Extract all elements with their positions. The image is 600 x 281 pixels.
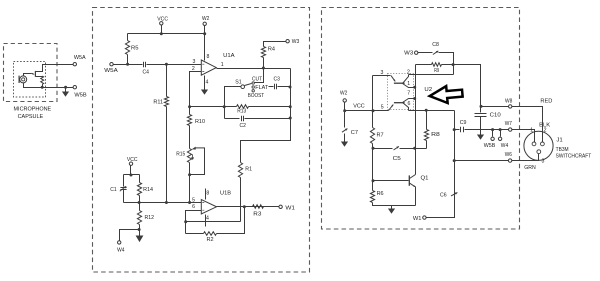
svg-text:C3: C3 — [274, 77, 280, 83]
wire C7 bottom — [344, 134, 346, 139]
wire R8 wires — [426, 111, 428, 130]
wire R14 top — [139, 175, 141, 183]
U2 bottom transistor bar — [394, 102, 405, 104]
terminal W5B mic — [73, 86, 76, 89]
wire R11 top — [166, 65, 168, 97]
wire C5 row right — [400, 148, 427, 150]
resistor R8 — [424, 130, 428, 141]
svg-text:TB3M: TB3M — [556, 147, 569, 153]
junction S1 R13 row — [223, 105, 226, 108]
wire R1 bottom row — [186, 221, 241, 223]
wire Q1 base row — [373, 180, 409, 182]
wire W2 stem right — [344, 103, 346, 111]
wire bottom row right — [373, 203, 416, 206]
trimmer R15 wiper arrow — [195, 147, 205, 149]
ground C7 — [344, 139, 346, 142]
wire VCC rail right — [345, 110, 389, 112]
svg-text:W8: W8 — [505, 98, 512, 104]
junction VCC rail — [160, 32, 163, 35]
capacitor C4 — [144, 62, 146, 68]
wire R6 top — [372, 149, 374, 191]
terminal W5A mic — [73, 62, 76, 65]
wire R1 bottom — [240, 178, 242, 222]
wire C5 row left — [373, 148, 393, 150]
connector J1 pin2 socket — [541, 142, 545, 146]
wire C1 top — [123, 175, 125, 187]
ground C10 — [480, 130, 482, 135]
wire W8 to J1 pin2 — [512, 107, 543, 143]
svg-text:5: 5 — [381, 104, 384, 110]
svg-text:3: 3 — [542, 158, 545, 164]
svg-text:R14: R14 — [143, 187, 153, 193]
wire C10 top — [480, 107, 482, 113]
optocoupler U2 dotted outline — [388, 74, 414, 110]
wire W4 branch — [120, 230, 140, 241]
junction W5B drop — [491, 128, 494, 131]
svg-text:5: 5 — [192, 198, 195, 204]
wire W6 to J1 pin3 — [512, 154, 539, 161]
junction R13 R10 — [188, 105, 191, 108]
wire mic bottom — [24, 83, 74, 88]
wire mic source to bottom — [42, 85, 44, 88]
wire W4 drop — [500, 130, 502, 137]
svg-text:R5: R5 — [131, 46, 139, 52]
wire U1B pin4 stub — [205, 215, 207, 227]
wire R12 wires — [139, 203, 141, 211]
resistor R4 — [261, 47, 265, 58]
wire mic gate — [24, 74, 32, 76]
svg-text:R13: R13 — [237, 109, 246, 115]
wire C3 to rail — [278, 86, 291, 88]
wire R7 wires — [372, 111, 374, 128]
junction R7 rail — [372, 109, 375, 112]
svg-text:R4: R4 — [268, 47, 275, 53]
wire R2 right — [217, 207, 245, 234]
wire W8 row — [481, 106, 509, 108]
U2 bottom transistor emitter — [389, 105, 394, 111]
op-amp U1B — [201, 200, 216, 214]
svg-text:1: 1 — [221, 62, 224, 68]
resistor R6 — [370, 191, 374, 203]
resistor R9 — [432, 63, 442, 67]
svg-text:W5A: W5A — [104, 68, 118, 74]
wire W2 stem to pin8 — [204, 26, 206, 61]
terminal W4 main — [118, 241, 121, 244]
junction output R2 — [243, 205, 246, 208]
svg-text:R11: R11 — [153, 99, 163, 105]
switch S1 lever — [245, 84, 252, 86]
svg-text:FLAT: FLAT — [255, 85, 269, 91]
wire R2 left — [186, 233, 204, 235]
svg-text:1: 1 — [407, 81, 410, 87]
terminal W1 main — [279, 205, 282, 208]
svg-text:W5B: W5B — [74, 93, 87, 99]
junction R5 W5A — [126, 63, 129, 66]
transistor Q1 bar — [408, 175, 410, 185]
svg-text:R1: R1 — [245, 167, 252, 173]
wire R10 to R15 — [189, 126, 191, 149]
wire U2 pin3 — [373, 75, 391, 77]
U2 top transistor emitter — [391, 76, 395, 82]
wire R14 bottom — [139, 196, 141, 203]
main amplifier dashed box — [93, 8, 310, 273]
wire R9 left — [416, 64, 432, 66]
wire S1 common — [225, 87, 241, 119]
wire C2 right — [245, 118, 291, 120]
junction R14 R12 — [138, 201, 141, 204]
svg-text:6: 6 — [408, 101, 411, 107]
wire R5 top — [127, 34, 129, 41]
capacitor C10 — [475, 114, 487, 117]
svg-text:S1: S1 — [235, 79, 241, 85]
svg-text:VCC: VCC — [157, 16, 168, 22]
svg-text:SWITCHCRAFT: SWITCHCRAFT — [556, 154, 592, 160]
wire R15 bottom — [189, 163, 191, 203]
wire feedback rail — [241, 69, 291, 163]
capacitor C9 — [461, 127, 464, 133]
mic jfet channel bar — [34, 71, 36, 77]
svg-text:R2: R2 — [207, 237, 214, 243]
Q1 emitter — [409, 183, 415, 187]
junction C3 rail — [289, 86, 292, 89]
wire U1A pin4 stub — [204, 76, 206, 90]
svg-text:GRN: GRN — [524, 165, 536, 171]
ground U1A — [204, 89, 206, 91]
capacitor C1 — [120, 188, 126, 190]
terminal VCC main — [160, 22, 163, 25]
wire R15 wiper loop — [190, 148, 205, 175]
wire U1A output — [217, 68, 291, 70]
svg-text:W3: W3 — [292, 39, 300, 45]
svg-text:4: 4 — [206, 216, 209, 222]
svg-text:W2: W2 — [340, 91, 347, 97]
wire U2 pin6 row — [409, 110, 455, 112]
wire W3 to C8 — [418, 52, 433, 54]
svg-text:Q1: Q1 — [421, 176, 429, 182]
junction VCC2 — [130, 174, 133, 177]
U2 top transistor collector — [403, 75, 409, 84]
wire W3 to R4 — [264, 42, 286, 47]
wire R7 bottom — [372, 144, 374, 149]
switch S1 contact CUT — [252, 82, 254, 84]
svg-text:W4: W4 — [501, 143, 508, 149]
switch S1 contact BOOST — [252, 90, 254, 92]
wire VCC stem — [161, 25, 163, 34]
mic element plate — [18, 76, 20, 83]
op-amp U1A — [201, 60, 216, 75]
junction C10 top — [480, 105, 483, 108]
ground Q1 — [391, 206, 393, 209]
svg-text:RED: RED — [540, 98, 552, 104]
junction C8 R9 — [452, 63, 455, 66]
wire U2 pin3 riser — [372, 76, 374, 111]
svg-text:W6: W6 — [505, 152, 512, 158]
svg-text:W2: W2 — [202, 16, 209, 22]
svg-text:C10: C10 — [490, 113, 501, 119]
junction mic source — [41, 86, 44, 89]
terminal VCC2 — [129, 162, 132, 165]
junction R15 pin5 row — [188, 201, 191, 204]
terminal W1 right — [423, 216, 426, 219]
wire U1B output — [217, 206, 281, 208]
wire W5A to C4 — [114, 64, 143, 66]
resistor R2 — [204, 232, 217, 236]
junction U2 pin1 — [413, 86, 416, 89]
wire VCC2 stem — [130, 166, 132, 175]
svg-text:VCC: VCC — [127, 157, 138, 163]
output stage dashed box — [322, 8, 520, 230]
svg-text:U2: U2 — [424, 87, 432, 93]
wire C1 R14 top — [124, 174, 140, 176]
svg-text:8: 8 — [207, 54, 210, 60]
U2 top transistor pin1 diag — [403, 84, 415, 88]
connector J1 pin1 socket — [532, 142, 536, 146]
svg-text:C8: C8 — [432, 42, 439, 48]
svg-text:C4: C4 — [143, 70, 149, 76]
junction rail W6 — [453, 159, 456, 162]
wire C1 bottom — [123, 190, 125, 203]
wire C9 to W7 — [465, 129, 509, 131]
wire W6 row — [455, 160, 509, 162]
terminal W3 main — [286, 40, 289, 43]
svg-text:6: 6 — [192, 204, 195, 210]
svg-text:W5A: W5A — [74, 55, 86, 61]
wire U2 common rail — [415, 65, 417, 175]
terminal W8 — [509, 105, 512, 108]
wire R13 left — [225, 106, 237, 108]
svg-text:C1: C1 — [110, 187, 116, 193]
Q1 collector — [410, 175, 416, 179]
svg-text:C7: C7 — [351, 130, 358, 136]
terminal W7 — [509, 128, 512, 131]
svg-text:7: 7 — [407, 91, 410, 97]
svg-text:C2: C2 — [240, 123, 246, 129]
wire mic jfet drain — [36, 65, 74, 72]
microphone capsule outer dashed box — [4, 44, 58, 102]
svg-text:MICROPHONE: MICROPHONE — [14, 106, 52, 112]
wire U1B pin8 stub — [205, 189, 207, 200]
svg-text:C6: C6 — [440, 193, 447, 199]
U2 bottom transistor pin7 diag — [403, 99, 415, 103]
svg-text:W3: W3 — [404, 51, 413, 57]
svg-text:W1: W1 — [285, 206, 295, 212]
junction R4 output — [262, 67, 265, 70]
junction mic ground — [64, 86, 67, 89]
terminal W6 — [508, 159, 511, 162]
junction R13 rail — [289, 105, 292, 108]
capacitor C2 — [242, 116, 244, 122]
wire pin5 row — [124, 202, 202, 204]
wire CUT riser — [255, 69, 264, 83]
wire W1 row — [427, 111, 455, 218]
svg-text:U1B: U1B — [220, 191, 231, 197]
capacitor C3 — [275, 84, 277, 90]
junction base row — [372, 179, 375, 182]
junction rail W7 — [453, 128, 456, 131]
junction C2 rail — [289, 117, 292, 120]
switch S1 pivot — [241, 85, 245, 89]
U2 bottom transistor pin6 diag — [403, 103, 409, 111]
svg-text:R6: R6 — [377, 191, 384, 197]
wire U1B pin6 loop — [186, 211, 202, 234]
svg-text:R15: R15 — [176, 152, 185, 158]
resistor R5 — [125, 41, 129, 55]
svg-text:1: 1 — [530, 128, 533, 134]
svg-text:U1A: U1A — [223, 53, 235, 59]
capacitor C8 — [433, 51, 438, 55]
wire R11 bottom — [166, 107, 168, 203]
svg-text:4: 4 — [206, 79, 209, 85]
wire C9 left — [455, 129, 460, 131]
junction R11 top — [165, 63, 168, 66]
wire C8 to corner — [439, 53, 454, 75]
resistor R10 — [187, 115, 191, 126]
wire U2 pin2 row — [409, 74, 454, 76]
svg-text:CAPSULE: CAPSULE — [18, 114, 44, 120]
ground mic — [65, 88, 67, 92]
junction W4 drop — [499, 128, 502, 131]
wire R4 bottom — [263, 58, 265, 69]
mic jfet gate arrow — [32, 73, 34, 75]
junction W2 rail right — [343, 109, 346, 112]
resistor R13 — [237, 105, 249, 109]
wire pin2 node to R10 — [189, 107, 191, 115]
svg-text:W7: W7 — [505, 121, 512, 127]
junction U2 pin7 — [413, 97, 416, 100]
svg-text:R7: R7 — [377, 133, 384, 139]
resistor R11 — [164, 97, 168, 107]
resistor R12 — [137, 211, 141, 225]
svg-text:W4: W4 — [117, 248, 124, 254]
junction R8 top — [425, 109, 428, 112]
microphone capsule inner dotted box — [14, 62, 46, 98]
ground R12 — [139, 230, 141, 236]
capacitor C6 — [451, 193, 457, 196]
mic source resistor — [41, 76, 44, 84]
terminal W3 right — [415, 51, 418, 54]
wire W5B drop — [492, 130, 494, 137]
junction R15 wiper — [188, 173, 191, 176]
svg-text:R12: R12 — [145, 215, 155, 221]
wire FLAT to C3 — [269, 86, 274, 88]
capacitor C7 — [342, 129, 347, 133]
svg-text:3: 3 — [193, 59, 196, 65]
svg-text:R9: R9 — [434, 68, 439, 74]
wire R13 to R10 node — [190, 106, 225, 108]
svg-text:2: 2 — [544, 128, 547, 134]
wire R5 bottom — [127, 55, 129, 65]
svg-text:BOOST: BOOST — [248, 93, 265, 99]
wire C10 bottom — [480, 117, 482, 130]
terminal W2 right — [343, 99, 346, 102]
U2 top transistor bar — [394, 82, 405, 84]
wire C2 left — [225, 118, 240, 120]
resistor R15 — [187, 149, 191, 163]
svg-text:R3: R3 — [253, 212, 261, 218]
wire C4 to pin3 — [147, 64, 202, 66]
svg-text:8: 8 — [206, 191, 209, 197]
capacitor C1 arrow — [120, 186, 126, 191]
svg-text:VCC: VCC — [353, 104, 365, 110]
wire U1A pin2 loop — [190, 72, 202, 107]
terminal W5B right — [491, 137, 494, 140]
wire R9 right to RED corner — [442, 65, 481, 107]
svg-text:W1: W1 — [413, 216, 422, 222]
svg-text:J1: J1 — [556, 138, 562, 144]
wire R12 bottom — [139, 225, 141, 230]
terminal W5A main — [110, 62, 113, 65]
capacitor C5 — [394, 146, 399, 150]
junction R11 pin5 row — [165, 201, 168, 204]
Q1 emitter riser — [415, 187, 417, 206]
resistor R7 — [370, 128, 374, 144]
annotation arrow — [429, 85, 463, 105]
wire R13 right — [249, 106, 291, 108]
wire C7 top — [344, 111, 346, 128]
svg-text:C5: C5 — [393, 156, 401, 162]
wire W7 to J1 pin1 — [512, 130, 535, 143]
junction R12 W4 — [138, 228, 141, 231]
wire top rail — [128, 33, 205, 35]
mic element circle — [20, 76, 27, 83]
connector J1 pin3 socket — [537, 150, 541, 154]
junction W2 rail — [203, 32, 206, 35]
junction C5 rail — [413, 147, 416, 150]
svg-text:R10: R10 — [195, 119, 205, 125]
junction R7 C5 — [372, 147, 375, 150]
switch S1 contact FLAT — [252, 86, 254, 88]
terminal W4 right — [498, 137, 501, 140]
wire mic jfet source — [36, 76, 43, 78]
connector J1 body — [524, 131, 553, 160]
terminal W2 main — [203, 22, 206, 25]
wire R8 bottom — [426, 141, 428, 149]
resistor R3 — [253, 205, 264, 209]
svg-text:W5B: W5B — [484, 143, 496, 149]
svg-text:C9: C9 — [460, 120, 467, 126]
junction pin6 R1 row — [184, 220, 187, 223]
resistor R1 — [238, 163, 242, 178]
resistor R14 — [137, 183, 141, 196]
svg-text:3: 3 — [381, 70, 384, 76]
svg-text:R8: R8 — [431, 132, 440, 138]
